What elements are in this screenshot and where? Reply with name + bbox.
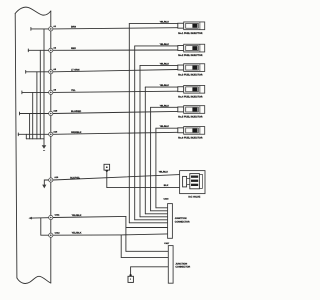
wire: ECM terminal A1 to No.1 injector pin 2 <box>53 28 178 29</box>
svg-text:C417: C417 <box>164 242 170 245</box>
node A3 (ECM terminal) <box>49 70 53 74</box>
svg-text:RED: RED <box>71 47 76 50</box>
wire: No.4 injector supply vertical drop <box>144 87 146 214</box>
connector pin tick for A15 lead <box>19 112 21 115</box>
wire: No.6 injector supply YEL/BLK horizontal run <box>156 127 178 129</box>
connector pin tick for A5 lead <box>21 91 23 94</box>
wire: ECM terminal A16 to No.6 injector pin 2 <box>53 132 178 134</box>
continuation arrow down (A10 lead) <box>42 185 46 189</box>
node C411 (ECM terminal) <box>49 215 53 219</box>
wire: No.3 injector supply into junction connector C416 <box>140 216 168 218</box>
svg-text:YEL/BLK: YEL/BLK <box>160 104 170 107</box>
wire: ECM terminal C411 YEL/BLK run <box>53 216 126 217</box>
node A16 (ECM terminal) <box>49 132 53 136</box>
IAC valve U1 <box>180 171 205 194</box>
svg-text:No.2 FUEL INJECTOR: No.2 FUEL INJECTOR <box>178 54 202 57</box>
wire: ECM terminal A5 to No.4 injector pin 2 <box>53 91 178 92</box>
wire: ECM terminal A2 left lead <box>28 49 48 51</box>
svg-text:YEL/BLK: YEL/BLK <box>160 62 170 65</box>
svg-text:CONNECTOR: CONNECTOR <box>175 266 190 269</box>
wire: C412 vertical drop <box>120 235 122 258</box>
wire: A15 branch drop to bundle bus <box>29 114 31 139</box>
svg-text:C416: C416 <box>164 198 170 201</box>
node C412 (ECM terminal) <box>49 233 53 237</box>
wire: A10 left lead to continuation arrow <box>44 180 48 185</box>
svg-text:YEL/BLK: YEL/BLK <box>160 125 170 128</box>
wire: C411 branch into junction connector C416 <box>126 227 168 229</box>
wire: No.3 injector supply vertical drop <box>139 65 141 216</box>
connector: No.2 fuel injector <box>178 44 205 52</box>
svg-text:No.5 FUEL INJECTOR: No.5 FUEL INJECTOR <box>178 116 202 119</box>
wire: BLK wire from ground splice to IAC valve pin 2 <box>107 172 180 187</box>
label JUNCTION CONNECTOR (C417) <box>175 262 190 268</box>
svg-text:BRN: BRN <box>71 26 76 29</box>
connector: No.5 fuel injector <box>178 106 205 114</box>
continuation arrow left (C411/C412 YEL/BLK) <box>28 217 32 220</box>
wire: No.2 injector supply vertical drop <box>134 46 136 220</box>
svg-text:BLK: BLK <box>164 184 169 187</box>
svg-text:BLU/RED: BLU/RED <box>71 110 82 113</box>
svg-text:YEL/BLK: YEL/BLK <box>72 214 82 217</box>
connector: No.6 fuel injector <box>178 127 205 135</box>
wire: C411 into junction connector C417 <box>126 250 168 252</box>
wire: A2 branch drop to bundle bus <box>39 50 41 139</box>
ground G101 (terminal box) <box>128 274 133 282</box>
wire: No.2 injector supply YEL/BLK horizontal run <box>135 45 178 47</box>
wire: No.3 injector supply YEL/BLK horizontal run <box>140 64 178 66</box>
wire: No.4 injector supply into junction connector C416 <box>145 213 167 215</box>
svg-text:YEL/BLK: YEL/BLK <box>72 232 82 235</box>
svg-text:YEL/BLK: YEL/BLK <box>160 84 170 87</box>
wire: tie branch down to C412 lead <box>41 218 49 235</box>
wire: ECM terminal A15 to No.5 injector pin 2 <box>53 111 178 113</box>
wire: C411 vertical drop <box>125 216 127 251</box>
wire: No.6 injector supply vertical drop <box>155 128 157 208</box>
wire: ECM terminal A15 left lead <box>20 113 49 115</box>
wire: No.4 injector supply YEL/BLK horizontal run <box>145 86 178 88</box>
svg-text:YEL: YEL <box>71 89 76 92</box>
connector pin tick for A16 lead <box>17 133 19 136</box>
junction connector C417 <box>168 246 173 284</box>
wire: ECM terminal A1 left lead <box>31 28 49 30</box>
continuation arrow down (injector driver bundle) <box>42 145 47 150</box>
node A15 (ECM terminal) <box>49 111 53 115</box>
wire: No.2 injector supply into junction connector C416 <box>135 219 168 221</box>
connector: No.3 fuel injector <box>178 64 205 72</box>
wire: C412 into junction connector C417 <box>121 256 168 258</box>
wire: A3 branch drop to bundle bus <box>36 72 38 139</box>
svg-text:YEL/BLK: YEL/BLK <box>159 170 169 173</box>
wire: A5 branch drop to bundle bus <box>32 92 34 138</box>
svg-text:CONNECTOR: CONNECTOR <box>175 220 190 223</box>
wire: junction connector C417 to ground G101 <box>131 267 169 275</box>
wire: ECM terminal A10 BLK/YEL to IAC valve pin 1 <box>53 175 180 180</box>
wire: No.1 injector supply into junction connector C416 <box>129 222 167 224</box>
ECM harness band top torn edge <box>15 7 51 15</box>
svg-text:No.1 FUEL INJECTOR: No.1 FUEL INJECTOR <box>178 32 202 35</box>
wire: bundle continuation stem <box>43 139 45 146</box>
svg-text:JUNCTION: JUNCTION <box>175 217 187 220</box>
wire: C412 into junction connector C416 <box>121 234 167 235</box>
wire: ECM terminal C412 YEL/BLK run <box>53 234 121 236</box>
svg-text:No.4 FUEL INJECTOR: No.4 FUEL INJECTOR <box>178 95 202 98</box>
wire: A16 branch drop to bundle bus <box>25 134 27 139</box>
connector pin tick for A3 lead <box>25 70 27 73</box>
wire: No.1 injector supply vertical drop <box>128 24 130 223</box>
wire: A1 branch drop to bundle bus <box>43 29 45 139</box>
label JUNCTION CONNECTOR (C416) <box>175 217 190 223</box>
svg-text:GRN/BLK: GRN/BLK <box>71 131 82 134</box>
ECM harness band left edge <box>15 14 17 279</box>
svg-text:IAC VALVE: IAC VALVE <box>188 195 200 198</box>
ECM harness band bottom torn edge <box>17 276 51 283</box>
wire: No.5 injector supply into junction connector C416 <box>151 210 168 212</box>
node A1 (ECM terminal) <box>49 27 53 31</box>
wire: left bundle bus <box>26 138 44 140</box>
svg-text:C411: C411 <box>55 214 61 217</box>
wire: No.5 injector supply YEL/BLK horizontal run <box>151 106 178 108</box>
node A2 (ECM terminal) <box>49 48 53 52</box>
svg-text:C412: C412 <box>55 231 61 234</box>
wire: No.5 injector supply vertical drop <box>150 107 152 211</box>
wire: ECM main vertical bus <box>50 11 52 283</box>
junction connector C416 <box>168 204 173 239</box>
connector: No.1 fuel injector <box>178 22 205 30</box>
svg-text:No.3 FUEL INJECTOR: No.3 FUEL INJECTOR <box>178 74 202 77</box>
wire: ECM terminal A3 left lead <box>26 71 49 73</box>
wire: No.1 injector supply YEL/BLK horizontal run <box>129 23 178 25</box>
svg-text:JUNCTION: JUNCTION <box>175 262 187 265</box>
node A10 (ECM terminal) <box>49 178 53 182</box>
wire: ECM terminal A16 left lead <box>18 133 48 135</box>
wire: No.6 injector supply into junction connector C416 <box>156 207 168 209</box>
svg-text:LT GRN: LT GRN <box>71 69 80 72</box>
svg-text:BLK/YEL: BLK/YEL <box>70 177 80 180</box>
wire: ECM terminal A2 to No.2 injector pin 2 <box>53 49 178 51</box>
svg-text:YEL/BLK: YEL/BLK <box>160 21 170 24</box>
wire: ECM terminal A5 left lead <box>22 91 49 93</box>
connector: No.4 fuel injector <box>178 85 205 93</box>
svg-text:No.6 FUEL INJECTOR: No.6 FUEL INJECTOR <box>178 136 202 139</box>
ground splice G401 (box with dot) <box>104 164 110 172</box>
connector pin tick for A2 lead <box>27 49 29 52</box>
svg-text:YEL/BLK: YEL/BLK <box>160 43 170 46</box>
connector pin tick for A1 lead <box>30 28 32 31</box>
wire: ECM terminal A3 to No.3 injector pin 2 <box>53 70 178 72</box>
wire: C411/C412 tie to left continuation arrow <box>32 217 49 219</box>
node A5 (ECM terminal) <box>49 90 53 94</box>
